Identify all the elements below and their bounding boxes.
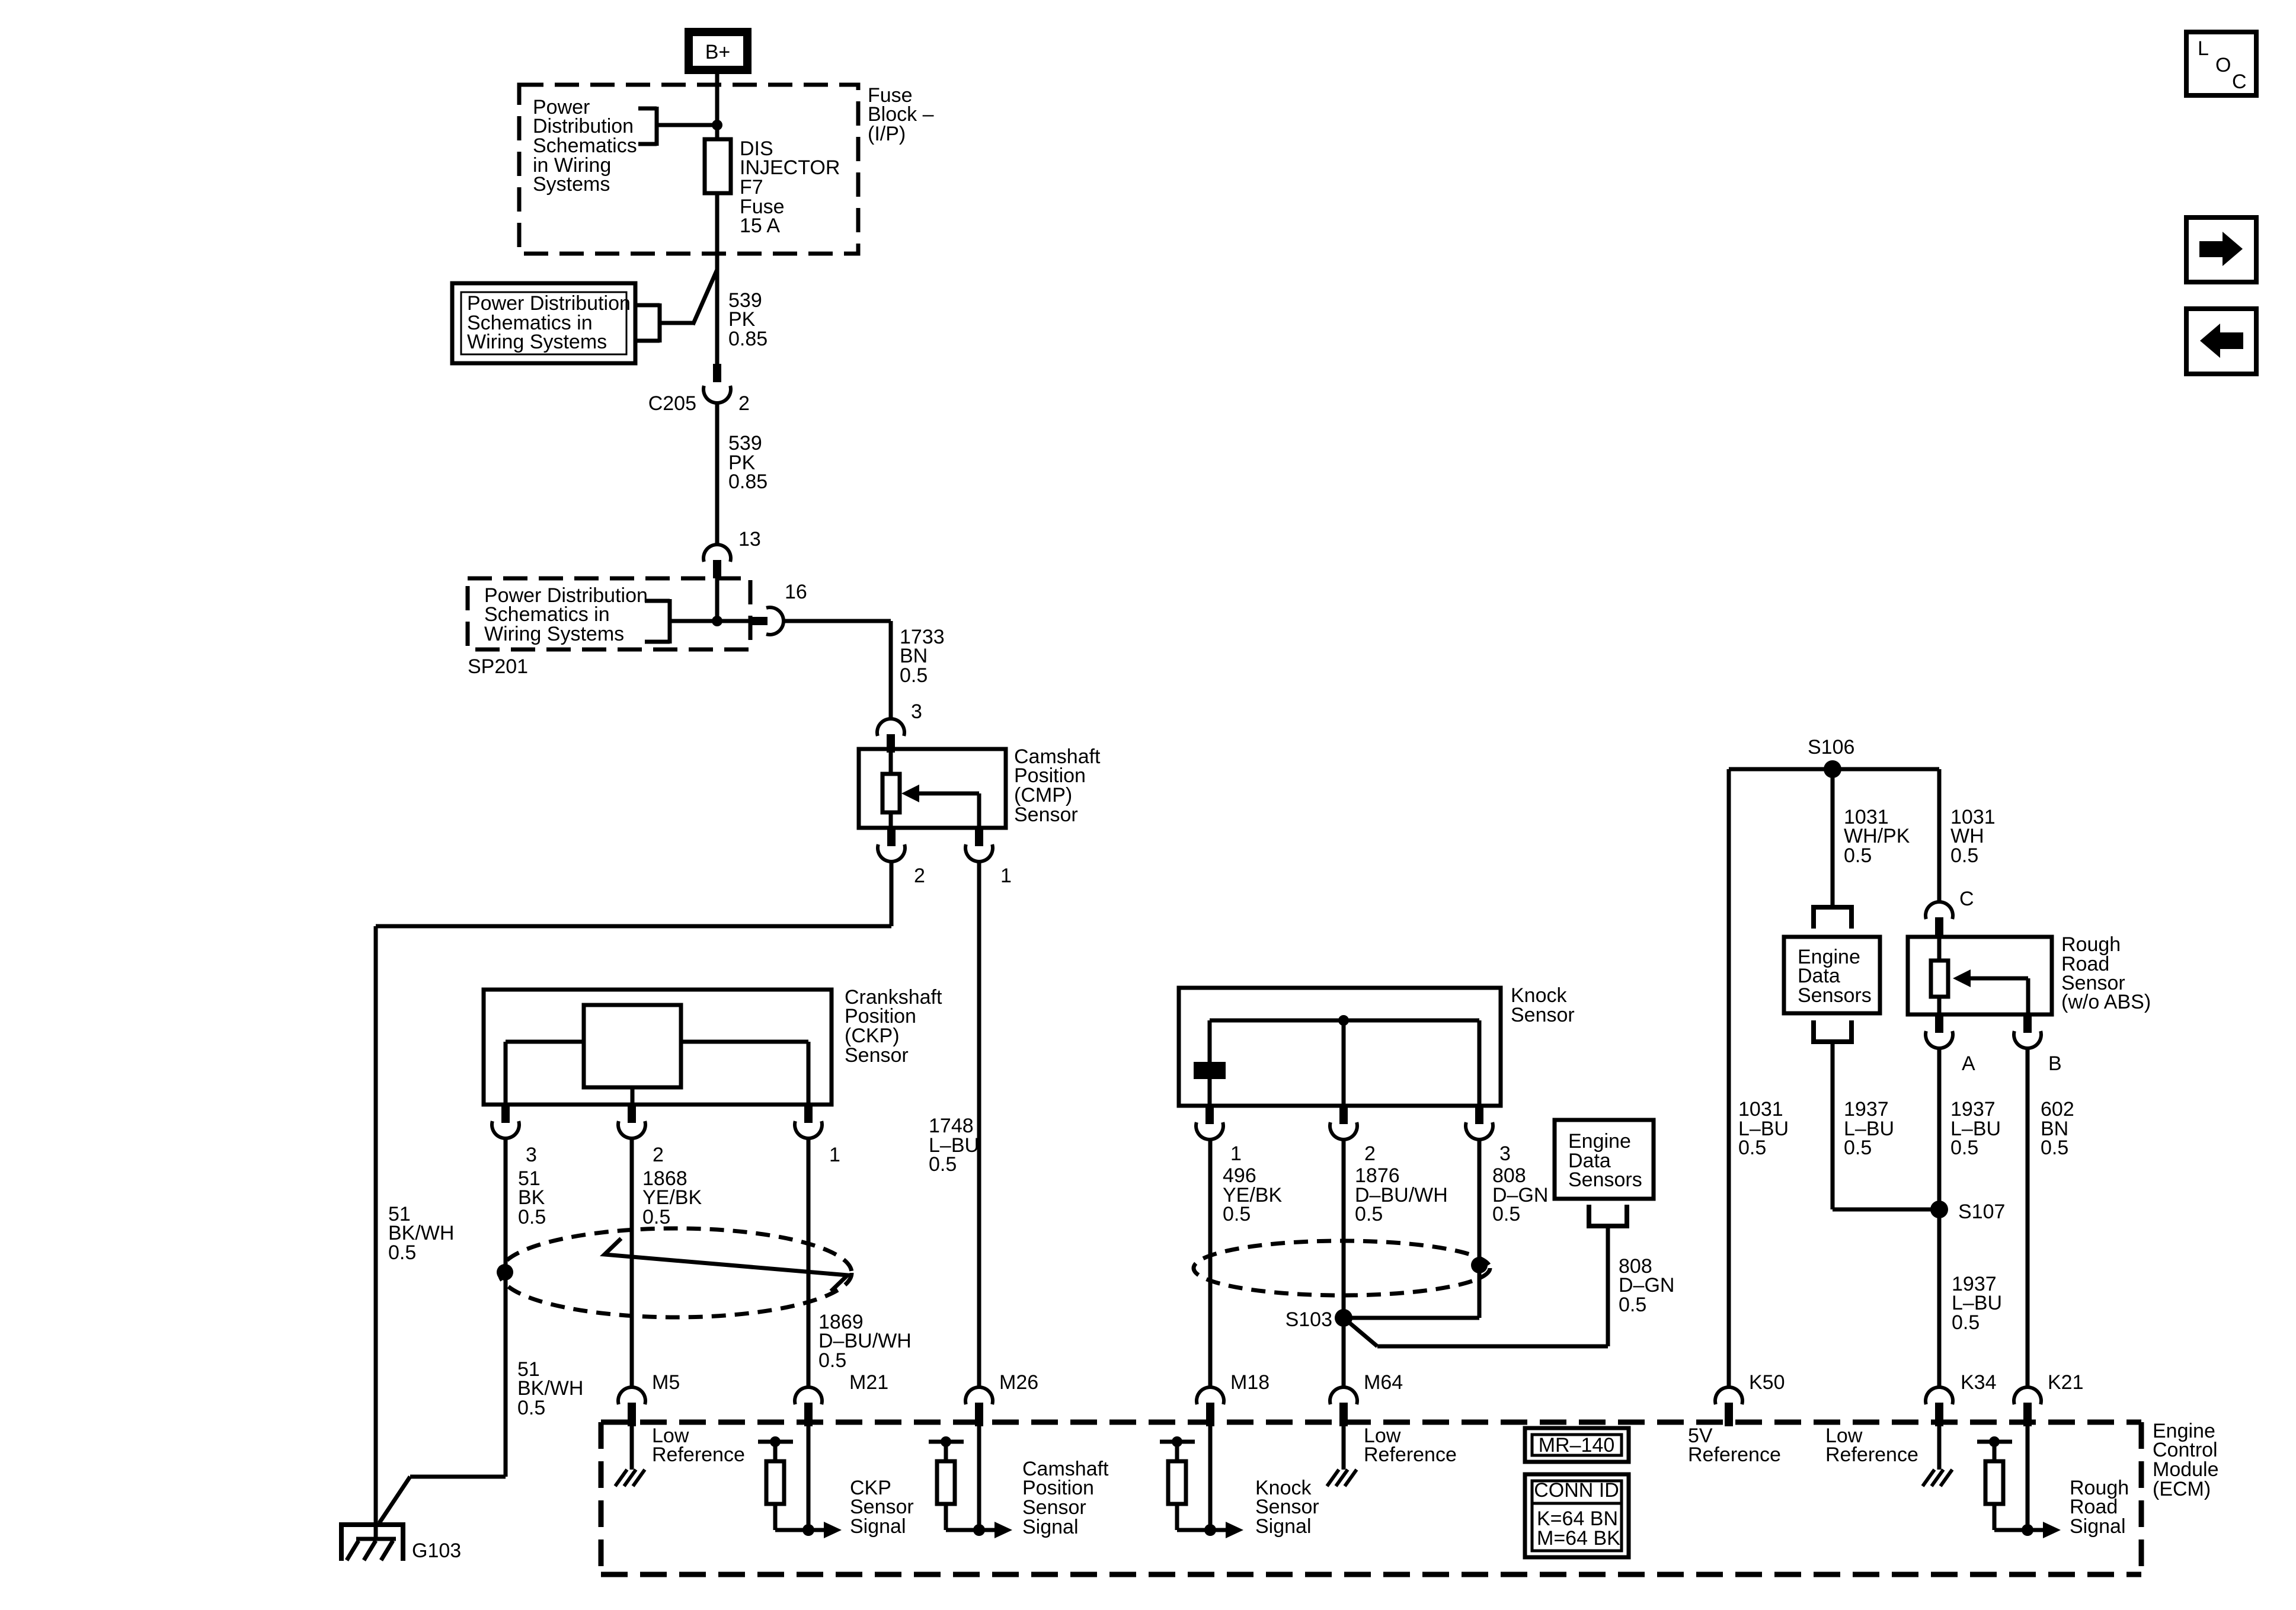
wire 1733 BN from pin 16 to CMP sensor (784, 621, 891, 719)
svg-text:B: B (2048, 1052, 2062, 1075)
svg-text:Signal: Signal (850, 1515, 906, 1538)
wire 1869 D-BU/WH from CKP pin 1 to M21 (807, 1138, 811, 1387)
svg-text:O: O (2215, 54, 2231, 76)
connector above engine data sensors (right) (1814, 905, 1851, 929)
svg-text:K21: K21 (2048, 1371, 2084, 1394)
connector pin 3 of CMP sensor (877, 719, 904, 753)
label wire 1031 L-BU 0.5 (1738, 1098, 1789, 1159)
M5 low reference ground (615, 1422, 645, 1486)
svg-text:0.5: 0.5 (388, 1241, 416, 1264)
power symbol B+ (battery positive) (689, 32, 747, 70)
connector pin 1 of CKP sensor (795, 1105, 822, 1138)
svg-text:1: 1 (829, 1144, 840, 1166)
label wire 808 D-GN 0.5 (engine data sensors) (1619, 1255, 1674, 1316)
shield ellipse around knock sensor wires (1194, 1241, 1490, 1295)
svg-text:0.5: 0.5 (517, 1397, 545, 1419)
svg-text:3: 3 (1499, 1142, 1511, 1165)
svg-text:G103: G103 (412, 1539, 461, 1562)
svg-text:M5: M5 (652, 1371, 680, 1394)
svg-text:S103: S103 (1285, 1308, 1332, 1331)
svg-text:Sensor: Sensor (1014, 804, 1078, 826)
svg-text:M=64 BK: M=64 BK (1537, 1527, 1620, 1550)
svg-text:15 A: 15 A (740, 215, 780, 237)
svg-text:Wiring Systems: Wiring Systems (484, 623, 624, 645)
wire 1868 YE/BK from CKP pin 2 to M5 (630, 1138, 634, 1387)
svg-text:0.5: 0.5 (518, 1206, 546, 1228)
svg-text:Reference: Reference (1688, 1443, 1781, 1466)
wire 51 BK/WH to ground G103 (379, 1272, 506, 1523)
label Fuse Block - (I/P) (868, 84, 934, 145)
label Rough Road Sensor (w/o ABS) (2061, 933, 2151, 1013)
wire 1937 L-BU engine data sensors to S107 (1833, 1042, 1939, 1209)
connector terminal M5 (618, 1387, 645, 1426)
svg-text:0.5: 0.5 (1355, 1203, 1383, 1225)
svg-text:C: C (2232, 71, 2247, 93)
svg-text:2: 2 (1364, 1142, 1376, 1165)
svg-text:SP201: SP201 (468, 655, 528, 678)
connector terminal M18 (1197, 1387, 1224, 1426)
svg-text:B+: B+ (705, 41, 731, 63)
svg-text:0.5: 0.5 (818, 1349, 846, 1372)
junction dot on B+ feed (712, 120, 722, 130)
svg-text:0.5: 0.5 (1844, 1137, 1872, 1159)
wire 808 D-GN knock pin 3 to splice S103 (1344, 1140, 1479, 1318)
label wire 1937 L-BU 0.5 (pin A) (1950, 1098, 2001, 1159)
label Knock Sensor Signal (1255, 1477, 1319, 1538)
label wire 1733 BN 0.5 (900, 626, 945, 687)
splice S103 (1335, 1309, 1352, 1327)
navigation icon arrow left (2186, 309, 2256, 374)
label wire 1748 L-BU 0.5 (929, 1115, 979, 1176)
connector pin A of rough road sensor (1926, 1014, 1953, 1048)
label wire 1031 WH/PK 0.5 (1844, 806, 1910, 867)
svg-text:K34: K34 (1961, 1371, 1997, 1394)
fuse block dashed box (I/P) (519, 85, 858, 254)
svg-text:Sensors: Sensors (1568, 1169, 1642, 1191)
knock sensor box (1179, 988, 1501, 1106)
connector pin 2 of CKP sensor (618, 1105, 645, 1138)
CMP sensor internals (element and wiper arrow) (882, 749, 979, 828)
connector terminal M26 (965, 1387, 993, 1426)
connector below engine data sensors (right) (1814, 1020, 1851, 1044)
svg-text:C: C (1959, 888, 1974, 910)
wire fuse to connector C205 (715, 193, 720, 365)
shield drain exit dot on 51 BK wire (497, 1264, 513, 1281)
connector 13 (SP201 feed) (703, 545, 731, 578)
splice pack SP201 dashed box (468, 578, 750, 649)
label wire 51 BK/WH 0.5 (lower) (517, 1358, 583, 1419)
label Rough Road Signal (2070, 1477, 2129, 1538)
svg-text:M26: M26 (999, 1371, 1038, 1394)
camshaft position sensor signal input network (M26) (929, 1420, 1012, 1538)
wire S106 horizontal bus (1729, 767, 1939, 772)
svg-text:3: 3 (526, 1144, 537, 1166)
svg-text:Sensors: Sensors (1798, 984, 1872, 1007)
connector pin 3 of CKP sensor (492, 1105, 519, 1138)
wire C205 to connector 13 (715, 403, 720, 545)
solid box Power Distribution Schematics in Wiring Systems (452, 283, 635, 363)
connector terminal K21 (2014, 1387, 2041, 1426)
svg-text:Reference: Reference (1825, 1443, 1918, 1466)
label Camshaft Position (CMP) Sensor (1014, 745, 1101, 826)
splice S106 (1824, 760, 1841, 778)
wire 1031 L-BU to K50 (1727, 769, 1731, 1387)
connector pin 1 of CMP sensor (965, 828, 993, 862)
connector pin 3 of knock sensor (1466, 1106, 1493, 1140)
wire 51 BK from CKP pin 3 (504, 1138, 508, 1477)
connector C205 pin 2 (703, 364, 731, 403)
wire 1031 WH S106 to rough road sensor pin C (1937, 769, 1942, 902)
wire CMP pin 1 to M26 (1748 L-BU) (977, 862, 981, 1387)
connector pin 2 of knock sensor (1330, 1106, 1357, 1140)
svg-text:M21: M21 (849, 1371, 888, 1394)
svg-text:0.5: 0.5 (1492, 1203, 1520, 1225)
svg-text:0.5: 0.5 (1738, 1137, 1766, 1159)
bracket inside SP201 (645, 599, 751, 644)
label wire 496 YE/BK 0.5 (1223, 1164, 1282, 1225)
svg-text:CONN ID: CONN ID (1534, 1479, 1619, 1502)
wire CMP pin 2 to ground run (376, 862, 891, 1524)
label wire 1876 D-BU/WH 0.5 (1355, 1164, 1448, 1225)
label wire 539 PK 0.85 (lower) (728, 432, 768, 493)
svg-text:0.5: 0.5 (1950, 1137, 1978, 1159)
svg-text:0.5: 0.5 (1844, 844, 1872, 867)
svg-text:2: 2 (653, 1144, 664, 1166)
label Low Reference (K34) (1825, 1425, 1918, 1466)
svg-text:0.5: 0.5 (1952, 1311, 1980, 1334)
svg-text:(I/P): (I/P) (868, 123, 906, 145)
svg-text:0.5: 0.5 (2041, 1137, 2068, 1159)
svg-text:1: 1 (1000, 865, 1012, 887)
svg-text:Systems: Systems (533, 173, 610, 196)
label wire 1868 YE/BK 0.5 (642, 1167, 702, 1228)
svg-text:2: 2 (738, 392, 750, 415)
label Low Reference (M64) (1364, 1425, 1457, 1466)
navigation icon arrow right (2186, 217, 2256, 282)
connector pin C of rough road sensor (1926, 902, 1953, 936)
CKP sensor inner element (506, 1005, 808, 1105)
svg-text:Sensor: Sensor (845, 1044, 909, 1067)
svg-text:L: L (2198, 37, 2209, 60)
label Engine Control Module (ECM) (2153, 1420, 2219, 1500)
wire 496 YE/BK knock pin 1 to M18 (1208, 1140, 1213, 1387)
connector pin 2 of CMP sensor (878, 828, 905, 862)
label Crankshaft Position (CKP) Sensor (845, 986, 942, 1067)
label wire 1937 L-BU 0.5 (below S107) (1952, 1273, 2002, 1334)
wire 1937 L-BU pin A to K34 (1937, 1048, 1942, 1387)
connector terminal K50 (1715, 1387, 1742, 1426)
svg-text:16: 16 (785, 581, 807, 603)
svg-text:(ECM): (ECM) (2153, 1478, 2211, 1500)
twisted pair marker inside CKP shield (605, 1238, 848, 1291)
label wire 1031 WH 0.5 (1950, 806, 1996, 867)
wire 1031 WH/PK S106 to engine data sensors (1831, 769, 1835, 907)
bracket from Power Distribution text to B+ feed (638, 107, 717, 146)
connector id tag MR-140 (1525, 1428, 1629, 1462)
connector terminal K34 (1926, 1387, 1953, 1426)
svg-text:Signal: Signal (1255, 1515, 1312, 1538)
shield drain exit dot on 808 wire (1471, 1257, 1488, 1273)
M64 low reference ground (1327, 1422, 1357, 1486)
svg-text:0.5: 0.5 (1223, 1203, 1251, 1225)
shield ellipse around CKP wires (500, 1228, 852, 1317)
fuse F7 DIS INJECTOR 15A (705, 139, 731, 193)
svg-text:Reference: Reference (652, 1443, 745, 1466)
connector id table CONN ID / K=64 BN / M=64 BK (1525, 1474, 1629, 1557)
svg-text:(w/o ABS): (w/o ABS) (2061, 991, 2151, 1013)
engine data sensors box (right) (1784, 937, 1880, 1013)
CKP sensor signal input network (M21) (758, 1420, 842, 1538)
svg-text:S106: S106 (1808, 736, 1854, 758)
svg-text:S107: S107 (1958, 1201, 2005, 1223)
junction dot SP201 (712, 616, 722, 626)
connector below engine data sensors (knock side) (1589, 1205, 1627, 1228)
svg-text:2: 2 (914, 865, 925, 887)
camshaft position (CMP) sensor box (859, 749, 1006, 828)
bracket and tap from solid box to feed wire (635, 270, 717, 343)
label Power Distribution Schematics in Wiring Systems (fuse block) (533, 96, 637, 196)
wire 808 D-GN engine data sensors to S103 (1344, 1226, 1608, 1346)
legend box LOC (2186, 32, 2256, 95)
svg-text:C205: C205 (648, 392, 696, 415)
label Low Reference (M5) (652, 1425, 745, 1466)
junction dot inside knock sensor (1338, 1015, 1349, 1026)
crankshaft position (CKP) sensor box (484, 990, 832, 1105)
connector terminal M21 (795, 1387, 822, 1426)
svg-text:0.5: 0.5 (929, 1153, 957, 1176)
rough road sensor box (1908, 937, 2052, 1014)
svg-text:K50: K50 (1749, 1371, 1785, 1394)
label wire 602 BN 0.5 (2041, 1098, 2074, 1159)
label wire 539 PK 0.85 (upper) (728, 289, 768, 350)
label DIS INJECTOR F7 Fuse 15 A (740, 137, 840, 237)
svg-text:Signal: Signal (2070, 1515, 2126, 1538)
K34 low reference ground (1923, 1422, 1952, 1486)
svg-text:0.5: 0.5 (642, 1206, 670, 1228)
svg-text:13: 13 (738, 528, 761, 550)
rough road signal input network (K21) (1977, 1420, 2061, 1538)
label wire 808 D-GN 0.5 (knock) (1492, 1164, 1548, 1225)
label wire 1869 D-BU/WH 0.5 (818, 1311, 912, 1372)
splice S107 (1930, 1201, 1948, 1218)
svg-text:A: A (1962, 1052, 1975, 1075)
wire 602 BN pin B to K21 (2026, 1048, 2030, 1387)
connector 16 (horizontal) (751, 607, 784, 635)
svg-text:0.5: 0.5 (1950, 844, 1978, 867)
connector terminal M64 (1330, 1387, 1357, 1426)
knock sensor internals (piezo element) (1194, 1020, 1479, 1106)
label CKP Sensor Signal (850, 1477, 914, 1538)
label 5V Reference (K50) (1688, 1425, 1781, 1466)
svg-text:Wiring Systems: Wiring Systems (467, 331, 607, 353)
label Camshaft Position Sensor Signal (1022, 1458, 1109, 1538)
engine control module (ECM) dashed box (601, 1422, 2141, 1574)
ground G103 (339, 1522, 405, 1561)
svg-text:0.85: 0.85 (728, 328, 768, 350)
svg-text:Sensor: Sensor (1511, 1004, 1575, 1026)
wire pin 13 into SP201 splice (715, 578, 720, 621)
label Power Distribution Schematics in Wiring Systems (SP201) (484, 584, 648, 645)
svg-text:M18: M18 (1230, 1371, 1269, 1394)
connector pin B of rough road sensor (2014, 1014, 2041, 1048)
svg-text:0.5: 0.5 (1619, 1294, 1646, 1316)
svg-text:Signal: Signal (1022, 1516, 1079, 1538)
svg-text:MR–140: MR–140 (1539, 1434, 1615, 1457)
knock sensor signal input network (M18) (1160, 1420, 1243, 1538)
wire 1876 D-BU/WH knock pin 2 to M64 (1342, 1140, 1346, 1387)
label Knock Sensor (1511, 984, 1575, 1026)
svg-text:3: 3 (911, 700, 922, 723)
svg-text:0.85: 0.85 (728, 470, 768, 493)
wire B+ to fuse block (715, 74, 720, 140)
rough road sensor internals (element and wiper arrow) (1931, 937, 2028, 1014)
label wire 51 BK/WH 0.5 (left) (388, 1203, 454, 1264)
svg-text:M64: M64 (1364, 1371, 1403, 1394)
label wire 1937 L-BU 0.5 (engine data sensors) (1844, 1098, 1894, 1159)
engine data sensors box (knock side) (1555, 1120, 1654, 1199)
svg-text:1: 1 (1230, 1142, 1242, 1165)
svg-text:0.5: 0.5 (900, 664, 928, 687)
svg-text:Reference: Reference (1364, 1443, 1457, 1466)
connector pin 1 of knock sensor (1196, 1106, 1223, 1140)
label wire 51 BK 0.5 (518, 1167, 546, 1228)
